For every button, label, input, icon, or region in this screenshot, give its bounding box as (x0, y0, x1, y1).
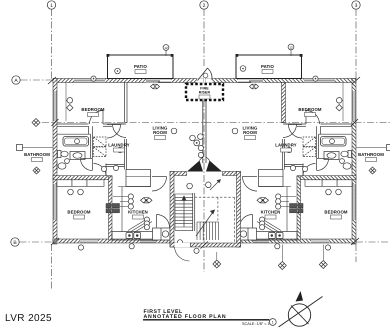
run arrow diagonal (196, 210, 215, 236)
left unit geometry (17, 54, 204, 250)
stair hall door leaves (187, 161, 222, 172)
svg-text:LAUNDRY: LAUNDRY (275, 143, 297, 148)
window bottom wall kitchen (140, 239, 156, 243)
title: first level annotated floor plan (144, 309, 227, 320)
toilet (58, 151, 69, 158)
svg-text:ROOM: ROOM (153, 130, 167, 135)
window bottom wall bedroom 2 (80, 239, 98, 243)
hexagon below wall (151, 84, 160, 89)
diamond below stair (213, 260, 221, 268)
stairwell (170, 172, 241, 262)
svg-text:BEDROOM: BEDROOM (81, 107, 104, 112)
svg-text:1: 1 (50, 3, 53, 9)
window left wall bedroom 1 (53, 91, 57, 121)
grid bubble A (12, 76, 20, 84)
exterior bottom wall (53, 239, 170, 243)
laundry door leaf+arc (107, 125, 121, 139)
patio (108, 55, 174, 79)
bathroom top wall / tub surround (57, 126, 93, 158)
svg-text:KITCHEN: KITCHEN (261, 210, 281, 215)
north arrow (279, 297, 323, 327)
interior wall bedroom1 / living (125, 83, 128, 123)
keynote circles kitchen col (128, 194, 149, 230)
room number boxes (32, 70, 377, 220)
svg-text:BEDROOM: BEDROOM (324, 210, 347, 215)
svg-text:PATIO: PATIO (134, 64, 148, 69)
grid bubble 3 (352, 1, 360, 9)
window left wall bedroom 2 (53, 184, 57, 220)
kitchen counter bottom + sink (112, 232, 158, 241)
washer dryer dashed (94, 137, 107, 157)
right unit geometry (mirror) (206, 54, 390, 250)
keynote hexagon left low (33, 167, 40, 174)
exterior top wall (53, 79, 204, 83)
room labels (24, 64, 384, 215)
bedroom1 bottom wall (57, 124, 125, 126)
stairwell walls (170, 172, 187, 176)
pedestal sink (57, 162, 66, 170)
svg-text:12: 12 (289, 46, 293, 50)
keynote circles living (171, 128, 177, 134)
bedroom1 door leaf+arc (113, 124, 127, 138)
keynote circles bedroom1 (66, 83, 73, 121)
grid line A horizontal (21, 79, 55, 81)
bedroom2/kitchen wall hatched (109, 176, 113, 240)
bedroom1 door from hall (90, 111, 104, 125)
keynote circle top patio left (163, 45, 169, 56)
grid bubble B (11, 238, 19, 246)
hall wall above bedroom2 (106, 165, 125, 167)
svg-text:KITCHEN: KITCHEN (128, 210, 148, 215)
dimension ticks at grid crossings (48, 77, 360, 249)
svg-text:RISER: RISER (199, 91, 211, 95)
svg-text:12: 12 (164, 46, 168, 50)
match line horizontal (42, 122, 390, 124)
grid line 2 vertical (203, 9, 205, 66)
svg-text:BEDROOM: BEDROOM (67, 210, 90, 215)
diamond below right bedroom (319, 261, 327, 269)
lower run treads (197, 222, 219, 240)
bathroom door leaf+arc (81, 159, 93, 171)
svg-text:PATIO: PATIO (261, 64, 275, 69)
stair rail (193, 193, 195, 231)
svg-text:1: 1 (272, 321, 274, 325)
svg-text:ROOM: ROOM (243, 130, 257, 135)
bottom opening door (175, 243, 191, 247)
panel box left wall (17, 145, 23, 151)
up arrow (182, 196, 186, 227)
svg-text:BEDROOM: BEDROOM (298, 107, 321, 112)
svg-text:3: 3 (355, 3, 358, 9)
bedroom2 closet row (57, 180, 104, 187)
counter diagonal lines (128, 220, 152, 233)
entry door opening in top wall (197, 78, 204, 82)
grid bubble 2 (200, 1, 208, 9)
laundry right wall (125, 139, 127, 170)
center party wall (203, 101, 206, 164)
dashed header lines (195, 197, 235, 243)
svg-text:2: 2 (203, 3, 206, 9)
keynote circles bath (65, 139, 123, 172)
keynote diamond left matchline (32, 119, 40, 127)
grid line B horizontal (20, 241, 55, 243)
keynote circle on wall (91, 76, 96, 81)
svg-text:LAUNDRY: LAUNDRY (108, 143, 130, 148)
bathtub (63, 137, 89, 147)
closet door arc (157, 215, 170, 228)
stair treads upper run (175, 194, 193, 230)
hatched wall right bedroom1 (282, 83, 286, 123)
window in top wall (74, 79, 105, 83)
keynote circles center wall (190, 134, 204, 158)
keynote circle top patio right (288, 44, 294, 56)
exterior left wall (53, 79, 57, 245)
keynote circle inside patio left (115, 68, 121, 74)
hall door arc by pantry (152, 177, 167, 192)
patio slider in top wall (146, 79, 171, 83)
bedroom2 top wall hatched (53, 176, 112, 180)
svg-text:BATHROOM: BATHROOM (24, 152, 50, 157)
diamond below right kitchen (278, 262, 286, 270)
svg-text:BATHROOM: BATHROOM (358, 152, 384, 157)
keynote circles bedroom2 (68, 189, 135, 250)
ceiling fan hexagon kitchen (141, 198, 153, 203)
grid bubble 1 (47, 1, 55, 9)
stove (106, 204, 120, 213)
vanity sink (70, 152, 85, 160)
keynote circle inside patio right (240, 66, 246, 72)
svg-text:LVR 2025: LVR 2025 (5, 313, 52, 324)
hall door to bedroom2 (94, 164, 107, 177)
fire riser room (186, 84, 223, 100)
entry door leaf and arc (198, 68, 213, 81)
kitchen top wall/counter (126, 170, 151, 187)
closet by stair (153, 228, 171, 240)
stairwell keynote circles (177, 182, 211, 253)
grid line 3 vertical (355, 9, 357, 79)
bottom diamonds (213, 260, 327, 270)
